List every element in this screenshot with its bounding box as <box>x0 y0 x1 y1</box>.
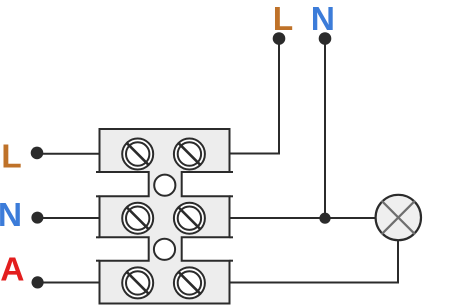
node terminal dot N top <box>319 32 332 45</box>
svg-text:N: N <box>0 197 22 234</box>
wire L right horizontal <box>230 153 280 155</box>
mounting hole 1 <box>154 175 175 196</box>
mounting hole 2 <box>154 239 175 260</box>
wire L top vertical <box>278 39 280 155</box>
screw terminal 1a <box>122 139 153 170</box>
node terminal dot A left <box>31 276 43 288</box>
junction dot on N wire <box>319 213 330 224</box>
svg-text:L: L <box>273 1 293 38</box>
screw terminal 3b <box>174 267 205 298</box>
wire lamp bottom vertical <box>397 241 399 284</box>
terminal block notch lip ticks <box>96 172 233 261</box>
screw terminal 1b <box>174 139 205 170</box>
svg-text:A: A <box>0 251 24 288</box>
wire N top vertical <box>324 39 326 219</box>
node terminal dot N left <box>31 212 43 224</box>
screw terminal 2a <box>122 203 153 234</box>
svg-text:N: N <box>311 1 335 38</box>
wire A right horizontal <box>230 282 400 284</box>
screw terminal 2b <box>174 203 205 234</box>
node terminal dot L left <box>31 147 44 160</box>
lamp E1 <box>376 195 421 240</box>
wire N right horizontal <box>230 217 376 219</box>
screw terminal 3a <box>122 267 153 298</box>
svg-text:L: L <box>1 139 21 176</box>
wire N left <box>37 217 100 219</box>
wire L left <box>37 153 100 155</box>
terminal block X1 body <box>100 129 230 304</box>
wire A left <box>37 282 100 284</box>
node terminal dot L top <box>273 32 286 45</box>
